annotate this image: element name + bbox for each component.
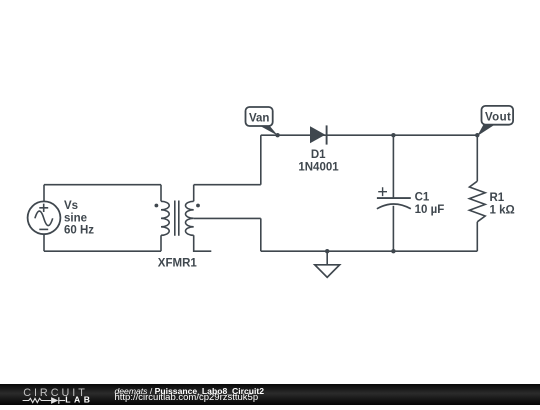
wire source top (43, 185, 45, 202)
ground (315, 265, 340, 278)
junction dot Vout corner (475, 133, 479, 137)
transformer XFMR1 (155, 201, 200, 236)
svg-text:Vout: Vout (485, 112, 511, 124)
label Vs value (64, 200, 94, 237)
wire top-left horizontal (44, 184, 161, 186)
svg-text:XFMR1: XFMR1 (158, 257, 198, 269)
wire resistor bottom (476, 222, 478, 251)
wire source bottom (43, 234, 45, 251)
wire riser to top rail (260, 135, 262, 185)
capacitor C1 (377, 187, 411, 209)
wire secondary top terminal (193, 185, 195, 202)
voltage source Vs (28, 201, 61, 234)
wire resistor top (476, 135, 478, 181)
wire secondary tap horizontal (194, 217, 261, 219)
wire ground stem (326, 251, 328, 265)
wire top rail (261, 134, 478, 136)
svg-text:D1: D1 (311, 149, 326, 161)
svg-text:Van: Van (249, 113, 269, 125)
wire secondary bottom stub (194, 235, 212, 251)
svg-text:1N4001: 1N4001 (298, 161, 339, 173)
wire capacitor top (392, 135, 394, 198)
wire bottom-left horizontal (44, 250, 161, 252)
wire bottom rail (261, 250, 478, 252)
svg-text:10 µF: 10 µF (415, 204, 445, 216)
diode D1 (310, 125, 327, 144)
svg-text:C1: C1 (415, 191, 430, 203)
junction dot Van (275, 133, 279, 137)
wire primary top terminal (160, 185, 162, 202)
svg-text:60 Hz: 60 Hz (64, 225, 94, 237)
junction dot cap top (391, 133, 395, 137)
junction dot cap bottom (391, 249, 395, 253)
wire tap drop (260, 218, 262, 251)
junction dot ground (325, 249, 329, 253)
resistor R1 (469, 181, 485, 222)
wire primary bottom terminal (160, 235, 162, 251)
svg-text:1 kΩ: 1 kΩ (490, 205, 515, 217)
footer bar (0, 384, 540, 405)
node flag Vout (477, 106, 513, 136)
svg-text:sine: sine (64, 212, 87, 224)
CircuitLab logo (0, 384, 100, 405)
wire capacitor bottom (392, 206, 394, 251)
svg-text:R1: R1 (490, 192, 505, 204)
footer text (115, 387, 265, 396)
node flag Van (246, 107, 279, 136)
svg-text:LAB: LAB (65, 395, 91, 405)
svg-text:Vs: Vs (64, 200, 78, 212)
wire secondary top horizontal (194, 184, 261, 186)
